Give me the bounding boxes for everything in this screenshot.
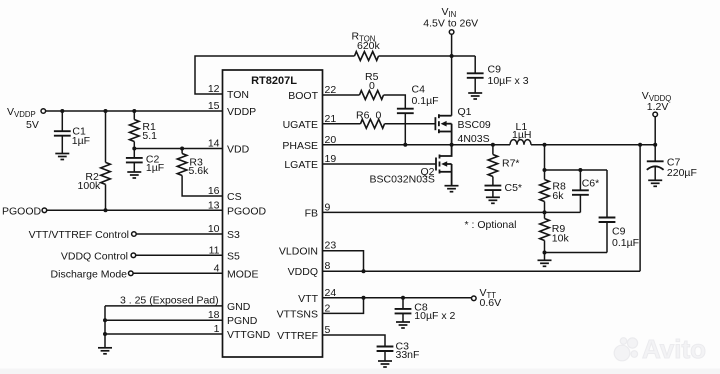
svg-text:1µH: 1µH [512,129,531,141]
svg-text:C9: C9 [488,64,502,76]
svg-text:GND: GND [227,301,251,313]
svg-text:BSC032N03S: BSC032N03S [370,174,435,186]
svg-text:9: 9 [325,201,331,213]
svg-text:23: 23 [325,240,337,252]
svg-text:MODE: MODE [227,268,259,280]
svg-text:VTTREF: VTTREF [277,330,318,342]
svg-text:12: 12 [208,83,220,95]
svg-text:0.6V: 0.6V [480,297,502,309]
svg-text:10: 10 [208,223,220,235]
svg-text:VDD: VDD [227,144,250,156]
svg-text:BOOT: BOOT [288,90,318,102]
svg-text:1: 1 [214,323,220,335]
svg-text:1.2V: 1.2V [647,101,669,113]
svg-text:C4: C4 [412,84,426,96]
svg-text:C6*: C6* [582,177,600,189]
svg-text:20: 20 [325,134,337,146]
svg-text:RT8207L: RT8207L [251,75,297,87]
svg-text:100k: 100k [78,180,102,192]
svg-text:0.1µF: 0.1µF [612,237,639,249]
svg-text:19: 19 [325,153,337,165]
svg-text:220µF: 220µF [667,167,697,179]
svg-text:S3: S3 [227,229,240,241]
svg-text:4: 4 [214,262,220,274]
svg-text:4.5V to 26V: 4.5V to 26V [423,18,478,30]
svg-text:PGOOD: PGOOD [2,205,42,217]
svg-text:22: 22 [325,84,337,96]
svg-text:Discharge Mode: Discharge Mode [51,268,128,280]
svg-text:5.1: 5.1 [142,130,157,142]
svg-text:0.1µF: 0.1µF [412,95,439,107]
svg-text:BSC09: BSC09 [458,119,491,131]
svg-text:4N03S: 4N03S [458,133,490,145]
svg-text:15: 15 [208,100,220,112]
svg-text:R7*: R7* [502,158,520,170]
svg-text:VDDP: VDDP [227,106,256,118]
svg-text:5: 5 [325,324,331,336]
svg-text:C5*: C5* [505,182,523,194]
svg-text:S5: S5 [227,250,240,262]
svg-text:C9: C9 [612,226,626,238]
svg-text:TON: TON [227,89,249,101]
svg-text:1µF: 1µF [146,162,164,174]
svg-text:24: 24 [325,287,337,299]
svg-text:VVDDP: VVDDP [7,106,36,119]
svg-text:14: 14 [208,138,220,150]
svg-text:10µF x 2: 10µF x 2 [414,310,455,322]
svg-text:8: 8 [325,260,331,272]
svg-text:6k: 6k [552,190,564,202]
svg-text:VTT: VTT [298,293,318,305]
svg-text:CS: CS [227,191,242,203]
svg-text:VDDQ: VDDQ [288,266,318,278]
svg-text:10µF x 3: 10µF x 3 [488,75,529,87]
svg-text:VLDOIN: VLDOIN [279,246,318,258]
svg-text:16: 16 [208,185,220,197]
svg-text:0: 0 [369,80,375,92]
svg-text:VTT/VTTREF Control: VTT/VTTREF Control [29,229,129,241]
svg-text:PHASE: PHASE [282,140,318,152]
svg-text:5V: 5V [26,119,39,131]
svg-text:11: 11 [209,244,220,256]
svg-text:R6: R6 [356,110,370,122]
svg-text:VTTSNS: VTTSNS [277,308,318,320]
svg-text:5.6k: 5.6k [189,165,210,177]
svg-text:13: 13 [208,199,220,211]
svg-text:620k: 620k [357,40,381,52]
svg-text:10k: 10k [552,233,570,245]
svg-text:UGATE: UGATE [283,119,318,131]
svg-text:33nF: 33nF [396,349,420,361]
svg-text:21: 21 [325,113,337,125]
svg-text:18: 18 [208,309,220,321]
svg-text:* : Optional: * : Optional [465,219,517,231]
svg-text:1µF: 1µF [72,135,90,147]
svg-text:0: 0 [376,110,382,122]
svg-text:LGATE: LGATE [284,159,318,171]
svg-text:PGND: PGND [227,315,258,327]
svg-text:VTTGND: VTTGND [227,329,271,341]
svg-text:VDDQ Control: VDDQ Control [61,250,128,262]
svg-text:Q1: Q1 [458,106,472,118]
svg-text:2: 2 [325,302,331,314]
svg-text:Avito: Avito [642,334,706,364]
svg-text:FB: FB [305,207,318,219]
svg-text:3 . 25 (Exposed Pad): 3 . 25 (Exposed Pad) [120,295,219,307]
svg-text:PGOOD: PGOOD [227,205,267,217]
